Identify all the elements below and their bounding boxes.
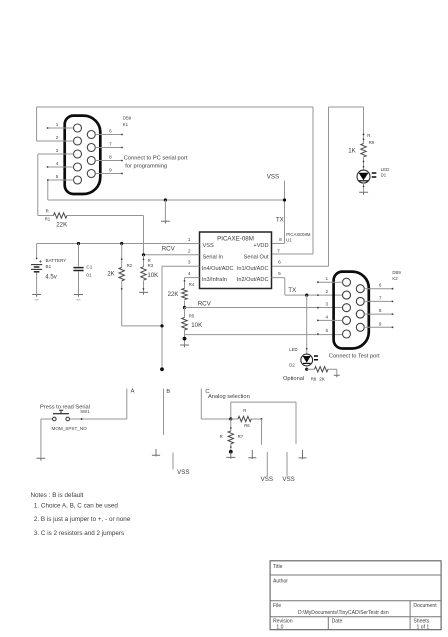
switch SW1 MOM_SPST_NO xyxy=(40,405,90,432)
svg-text:1: 1 xyxy=(56,122,59,127)
svg-text:1: 1 xyxy=(188,237,191,243)
svg-text:A: A xyxy=(131,388,135,394)
wire R6 right leg down xyxy=(261,419,263,445)
svg-text:3: 3 xyxy=(188,260,191,266)
svg-text:5: 5 xyxy=(56,174,59,179)
K2 pin 6 circle xyxy=(356,285,364,293)
wire K1 pin5 down to ground line xyxy=(47,180,49,200)
op-amp U1 PICAXE-08M body xyxy=(200,232,272,289)
svg-text:R: R xyxy=(243,408,246,413)
K1 pin numbers xyxy=(56,122,112,179)
svg-text:R9: R9 xyxy=(369,140,375,145)
junction R7 bottom xyxy=(229,450,233,454)
K1 pin 5 circle xyxy=(74,176,82,184)
svg-text:RCV: RCV xyxy=(162,245,176,252)
junction D2 / R8 xyxy=(305,368,308,371)
svg-text:6: 6 xyxy=(379,283,382,288)
svg-text:TX: TX xyxy=(276,216,284,223)
K2 pin 2 circle xyxy=(343,291,351,299)
resistor R5 10K xyxy=(182,308,202,345)
K2 pin 9 circle xyxy=(356,323,364,331)
svg-text:LED: LED xyxy=(289,347,297,352)
svg-text:U1: U1 xyxy=(286,238,292,243)
svg-text:In4/Out/ADC: In4/Out/ADC xyxy=(202,266,234,272)
junction below R5 xyxy=(183,337,187,341)
LED D1 xyxy=(357,167,389,183)
svg-text:1. Choice A, B, C can be used: 1. Choice A, B, C can be used xyxy=(34,503,119,510)
svg-text:R4: R4 xyxy=(189,282,195,287)
svg-text:R7: R7 xyxy=(238,434,244,439)
wire TX junction down to LED D2 xyxy=(306,295,308,354)
resistor R9 1K xyxy=(348,133,375,170)
svg-text:R: R xyxy=(220,434,223,439)
svg-text:VSS: VSS xyxy=(203,243,214,249)
svg-text:8: 8 xyxy=(109,155,112,160)
svg-text:MOM_SPST_NO: MOM_SPST_NO xyxy=(52,426,88,431)
title block xyxy=(270,561,441,631)
K1 reference label DB9 K1 xyxy=(123,116,132,127)
node A terminus dot xyxy=(160,367,164,371)
wire B option stub xyxy=(172,453,174,470)
wire R2 bottom to pin3 net xyxy=(122,325,162,327)
svg-text:K1: K1 xyxy=(123,122,129,127)
junction on ground line xyxy=(164,198,167,201)
resistor R6 2K (analog) xyxy=(231,408,263,428)
wire R1 down to RCV net xyxy=(143,216,145,255)
battery B1 xyxy=(31,244,66,294)
svg-text:R2: R2 xyxy=(127,263,133,268)
svg-text:9: 9 xyxy=(109,168,112,173)
K1 unconnected pin end ticks xyxy=(47,127,123,174)
K2 pin 4 circle xyxy=(343,316,351,324)
junction RCV / R3 xyxy=(142,253,145,256)
svg-text:LED: LED xyxy=(381,167,389,172)
resistor R7 (analog) xyxy=(220,419,244,452)
wire RCV to U1 pin 2 xyxy=(144,254,200,256)
wire LED D1 to ground xyxy=(363,183,365,192)
connector K1 DB9 outline xyxy=(65,116,101,194)
capacitor C1 xyxy=(73,244,92,295)
wire switch to ground xyxy=(40,419,42,458)
K1 pin 2 circle xyxy=(74,137,82,145)
svg-text:3: 3 xyxy=(56,148,59,153)
ground (D1) xyxy=(359,192,368,194)
U1 reference label xyxy=(286,232,311,243)
U1 pin numbers xyxy=(188,237,282,277)
wire R8 to ground xyxy=(336,369,338,375)
ground (C option left) xyxy=(248,450,256,459)
svg-text:2: 2 xyxy=(325,289,328,294)
svg-text:5: 5 xyxy=(278,271,281,277)
K2 pin numbers xyxy=(325,276,381,333)
junction pin3 net / R2 line xyxy=(160,324,163,327)
svg-text:22K: 22K xyxy=(168,291,179,298)
svg-text:BATTERY: BATTERY xyxy=(46,258,67,263)
svg-text:DB9: DB9 xyxy=(392,270,401,275)
svg-text:VSS: VSS xyxy=(267,174,279,181)
wire U1 pin 4 to R4 xyxy=(185,277,200,279)
K1 pin 8 circle xyxy=(87,157,95,165)
svg-text:6: 6 xyxy=(109,129,112,134)
svg-text:Date: Date xyxy=(332,619,343,625)
svg-text:4: 4 xyxy=(56,161,59,166)
K1 pin 9 circle xyxy=(87,170,95,178)
connector K2 DB9 outline xyxy=(334,272,369,349)
K2 pin 5 circle xyxy=(343,330,351,338)
ground (R8) xyxy=(334,375,340,377)
wire R5 bottom to K2 pin5 xyxy=(185,334,343,336)
svg-text:PICAXE08M: PICAXE08M xyxy=(286,232,311,237)
resistor R8 2K xyxy=(307,367,337,382)
svg-text:R: R xyxy=(46,209,49,214)
K2 pin 7 circle xyxy=(356,297,364,305)
svg-text:In3/InfraIn: In3/InfraIn xyxy=(202,277,227,283)
svg-text:8: 8 xyxy=(279,237,282,243)
svg-text:7: 7 xyxy=(109,142,112,147)
svg-text:Notes : B is default: Notes : B is default xyxy=(31,492,84,499)
node A stub xyxy=(127,388,135,419)
ground (battery) xyxy=(32,295,41,300)
svg-text:Title: Title xyxy=(273,564,283,570)
svg-text:22K: 22K xyxy=(56,222,67,229)
ground (B option left) xyxy=(152,449,160,457)
wire analog selection loop xyxy=(231,402,296,444)
ground (switch) xyxy=(36,458,45,460)
wire U1 pin5 TX to K2 pin 2 xyxy=(272,278,343,296)
svg-text:D1: D1 xyxy=(381,173,387,178)
svg-text:8: 8 xyxy=(379,308,382,313)
ground (R3) xyxy=(139,292,148,294)
K1 pin wires left xyxy=(37,128,74,180)
K2 reference label DB9 K2 xyxy=(392,270,401,281)
svg-text:R1: R1 xyxy=(45,217,51,222)
svg-text:R: R xyxy=(367,133,370,138)
battery rail wire to U1 pin 1 xyxy=(37,243,200,245)
junction battery rail / R2 xyxy=(120,242,123,245)
K2 pin 1 circle xyxy=(343,278,351,286)
svg-text:VSS: VSS xyxy=(261,476,273,483)
junction battery rail / C1 xyxy=(77,242,80,245)
svg-text:2: 2 xyxy=(188,248,191,254)
wire ground line (VSS net) K1 pin5 to U1 pin8 xyxy=(48,199,285,201)
junction TX / D2 feed xyxy=(305,294,308,297)
svg-text:In1/Out/ADC: In1/Out/ADC xyxy=(237,266,269,272)
svg-text:R5: R5 xyxy=(189,314,195,319)
svg-text:R3: R3 xyxy=(148,263,154,268)
svg-text:TX: TX xyxy=(288,287,296,294)
wire top rail 2 (U1 pin6 net to R9/D1) xyxy=(272,107,364,266)
svg-text:+VDD: +VDD xyxy=(253,243,268,249)
svg-text:VSS: VSS xyxy=(282,476,294,483)
ground (on VSS line) xyxy=(161,200,170,224)
resistor R4 22K xyxy=(168,278,195,308)
resistor R3 10K xyxy=(141,255,158,292)
ground (C option right) xyxy=(299,450,307,459)
svg-text:4: 4 xyxy=(325,314,328,319)
svg-text:7: 7 xyxy=(277,248,280,254)
svg-text:B1: B1 xyxy=(46,264,52,269)
svg-text:D:\MyDocuments\TinyCAD\SerTest: D:\MyDocuments\TinyCAD\SerTestr dsn xyxy=(298,610,389,616)
svg-text:1: 1 xyxy=(325,276,328,281)
svg-text:D2: D2 xyxy=(289,362,295,367)
svg-text:Optional: Optional xyxy=(283,376,304,382)
K2 pin wires right xyxy=(364,288,393,328)
K1 pin 1 circle xyxy=(74,124,82,132)
svg-text:SW1: SW1 xyxy=(80,409,90,414)
K2 pin 3 circle xyxy=(343,304,351,312)
LED D2 xyxy=(289,347,318,367)
wire A to switch xyxy=(69,418,126,420)
wire K1 pin3 to R1 xyxy=(37,154,39,216)
svg-text:VSS: VSS xyxy=(177,469,189,476)
K2 pin wires left (1 and 4 stubs) xyxy=(317,281,343,335)
wire C option stub 2 xyxy=(286,452,288,476)
ground (R7) xyxy=(226,452,235,459)
svg-text:4: 4 xyxy=(188,271,191,277)
svg-text:1 of 1: 1 of 1 xyxy=(417,625,430,631)
svg-text:In2/Out/ADC: In2/Out/ADC xyxy=(237,277,269,283)
wire RCV to K2 pin 3 xyxy=(185,307,343,309)
svg-text:3: 3 xyxy=(325,302,328,307)
K2 pin 8 circle xyxy=(356,310,364,318)
svg-text:K2: K2 xyxy=(392,276,398,281)
K1 pin wires right xyxy=(95,135,122,174)
svg-text:2. B is just a jumper to +,: 2. B is just a jumper to +, - or none xyxy=(34,516,131,523)
notes text xyxy=(31,492,131,537)
svg-text:Analog selection: Analog selection xyxy=(208,394,250,400)
node VSS vertical to U1 pin 8 xyxy=(272,181,285,244)
svg-text:4.5v: 4.5v xyxy=(45,274,57,281)
svg-text:Author: Author xyxy=(273,579,288,585)
svg-text:R6: R6 xyxy=(244,423,250,428)
svg-text:R8: R8 xyxy=(311,377,317,382)
resistor R1 22K xyxy=(38,209,144,229)
svg-text:10K: 10K xyxy=(191,322,202,329)
svg-text:01: 01 xyxy=(86,273,92,278)
svg-text:2K: 2K xyxy=(319,377,326,382)
node C stub xyxy=(201,389,231,420)
svg-text:9: 9 xyxy=(379,321,382,326)
wire C option stub 1 xyxy=(266,452,268,476)
svg-text:6: 6 xyxy=(278,260,281,266)
svg-text:1.0: 1.0 xyxy=(276,625,283,631)
node B stub xyxy=(164,389,171,436)
ground (below R5) xyxy=(180,345,189,347)
svg-text:3. C is 2 resistors and 2 j: 3. C is 2 resistors and 2 jumpers xyxy=(34,530,124,537)
junction VSS line / pin8 drop xyxy=(283,198,286,201)
svg-text:2: 2 xyxy=(56,135,59,140)
svg-text:C1: C1 xyxy=(86,264,92,269)
note text connect to PC xyxy=(124,156,188,170)
K1 pin 7 circle xyxy=(87,144,95,152)
svg-text:Document: Document xyxy=(413,603,437,609)
K1 pin 3 circle xyxy=(74,150,82,158)
junction R4/R5 RCV node xyxy=(183,306,186,309)
wire U1 pin 3 left and down xyxy=(162,266,200,369)
svg-text:10K: 10K xyxy=(147,272,158,279)
ground (C1) xyxy=(74,295,83,300)
svg-text:Serial Out: Serial Out xyxy=(244,255,269,261)
svg-text:PICAXE-08M: PICAXE-08M xyxy=(217,236,254,243)
resistor R2 2K xyxy=(107,244,132,326)
wire top rail 1 (Serial Out net from U1 pin7 to K1 pin2) xyxy=(37,107,313,254)
svg-text:2K: 2K xyxy=(107,271,114,278)
junction C node xyxy=(229,417,232,420)
wire LED D2 bottom xyxy=(306,366,308,369)
svg-text:7: 7 xyxy=(379,295,382,300)
svg-text:File: File xyxy=(273,603,281,609)
svg-text:Serial In: Serial In xyxy=(203,255,224,261)
svg-text:1K: 1K xyxy=(348,147,355,154)
svg-text:Connect to PC serial port: Connect to PC serial port xyxy=(124,156,188,162)
K1 pin 6 circle xyxy=(87,131,95,139)
svg-text:DB9: DB9 xyxy=(123,116,132,121)
svg-text:B: B xyxy=(166,389,170,395)
svg-text:Connect to Test port: Connect to Test port xyxy=(329,353,380,359)
svg-text:for programming: for programming xyxy=(125,164,167,170)
K1 pin 4 circle xyxy=(74,163,82,171)
svg-text:RCV: RCV xyxy=(198,301,212,308)
svg-text:5: 5 xyxy=(325,328,328,333)
